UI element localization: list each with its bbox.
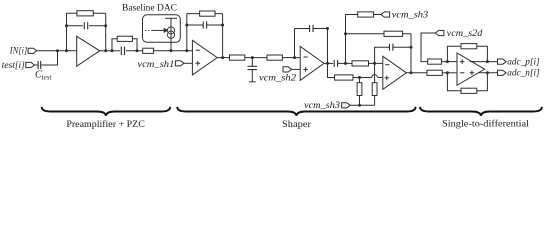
svg-text:Ctest: Ctest [35, 70, 52, 82]
resistor R4 [352, 61, 369, 66]
wire Rvcm2 bottom [374, 96, 376, 106]
wire adc_n output [474, 72, 498, 74]
brace single-to-differential section [420, 108, 542, 116]
wire test pad to C_test [34, 64, 37, 66]
wire shaper2 output [324, 62, 333, 64]
resistor s2d feedback bottom [461, 88, 477, 93]
junction PZC right [136, 49, 139, 52]
wire PZC cap right [126, 50, 143, 52]
arrowhead DAC [164, 29, 167, 33]
resistor Rin_n [427, 70, 442, 75]
junction feedback cap left [65, 24, 68, 27]
resistor PZC Rpz [117, 36, 132, 41]
resistor s2d feedback top [461, 44, 477, 49]
junction feedback cap right [104, 24, 107, 27]
svg-text:adc_p[i]: adc_p[i] [507, 57, 540, 67]
wire vcm_sh1 to shaper1 plus [184, 62, 192, 64]
svg-text:Preamplifier + PZC: Preamplifier + PZC [66, 119, 145, 129]
wire shaper2 feedback left vertical [294, 29, 296, 58]
junction Rvcm1 top [358, 76, 361, 79]
wire s2d bottom feedback right [477, 73, 488, 91]
svg-text:test[i]: test[i] [2, 60, 26, 70]
s2d out plus sign [470, 71, 475, 76]
op3 minus sign [385, 64, 389, 66]
wire R4 to op3 [369, 62, 383, 64]
capacitor op3 feedback [390, 44, 393, 51]
wire Rin_n to s2d [442, 72, 457, 74]
capacitor C3 series [334, 60, 337, 67]
wire shaper1 feedback right vertical [222, 14, 224, 58]
junction test/IN node [56, 49, 59, 52]
wire preamp feedback cap row left [67, 25, 83, 27]
shaper1 minus sign [196, 49, 200, 51]
capacitor shaper2 feedback [310, 25, 313, 32]
baseline DAC box [143, 15, 181, 43]
op-amp shaper1 A2 [192, 40, 217, 75]
wire R6 to hop [353, 77, 372, 79]
wire DAC supply T-bar [165, 17, 177, 19]
wire R3 to shaper2 [282, 57, 300, 59]
pad adc_p [498, 59, 507, 64]
wire shaper2 cap row left [295, 28, 310, 30]
resistor R5 vcm_sh3 [358, 12, 374, 17]
shaper2 minus sign [304, 56, 308, 58]
wire preamp output [100, 50, 112, 52]
capacitor shunt C2 [248, 66, 258, 69]
svg-text:vcm_sh3: vcm_sh3 [392, 9, 429, 19]
wire vcm_sh3 stub vertical [346, 15, 358, 64]
wire IN to preamp [37, 50, 77, 52]
s2d in minus sign [460, 72, 464, 74]
junction op3 feedback tap [373, 62, 376, 65]
wire shaper1 feedback top rail [187, 13, 223, 15]
wire hop over vertical [372, 75, 378, 78]
op-amp shaper2 A3 [300, 46, 324, 80]
junction adc_n node [486, 71, 489, 74]
wire op3 output [406, 72, 427, 74]
resistor op3 feedback [384, 31, 403, 36]
wire C_test to IN node [41, 51, 57, 65]
resistor R6 [335, 75, 354, 80]
capacitor preamp feedback Cf [84, 22, 87, 29]
svg-text:Baseline DAC: Baseline DAC [122, 3, 177, 13]
junction vcm_sh3 stub tap [344, 62, 347, 65]
shaper2 plus sign [303, 67, 308, 72]
wire hop to op3 plus [378, 77, 383, 79]
wire PZC cap left [112, 50, 120, 52]
junction PZC left [111, 49, 114, 52]
pad IN[i] [28, 48, 37, 53]
junction shaper2 feedback corner [326, 27, 329, 30]
wire DAC arrow shaft [152, 29, 164, 31]
current source DAC circles [167, 27, 174, 39]
junction adc_p node [486, 60, 489, 63]
svg-text:vcm_s2d: vcm_s2d [447, 28, 483, 38]
op-amp A4 [383, 56, 407, 89]
op3 plus sign [385, 76, 390, 81]
wire preamp feedback top rail [67, 12, 106, 14]
junction op3 cap right [410, 46, 413, 49]
junction shaper2 output [326, 62, 329, 65]
svg-text:vcm_sh2: vcm_sh2 [259, 73, 297, 83]
shaper1 plus sign [196, 61, 201, 66]
wire preamp feedback left vertical [66, 13, 68, 51]
wire vcm_s2d stub [421, 33, 435, 62]
svg-text:vcm_sh3: vcm_sh3 [304, 100, 341, 110]
wire Rin_p to s2d [442, 61, 457, 63]
junction shunt cap node [251, 56, 254, 59]
wire PZC bridge right vertical [132, 39, 137, 51]
wire R1 to shaper1 [154, 50, 193, 52]
s2d in plus sign [460, 59, 465, 64]
brace shaper section [177, 108, 415, 116]
wire shaper1 cap row left [187, 24, 203, 26]
pad vcm_sh3 top [381, 12, 390, 17]
wire op3 cap row left [375, 47, 390, 63]
pad vcm_sh2 [283, 67, 292, 72]
wire preamp feedback right vertical [105, 13, 107, 51]
junction shaper1 cap left [185, 24, 188, 27]
svg-text:IN[i]: IN[i] [9, 46, 28, 56]
wire op3 feedback right vertical [403, 34, 411, 73]
junction preamp input node [65, 49, 68, 52]
resistor R2 [230, 55, 245, 60]
capacitor PZC Cpz [121, 47, 124, 55]
wire op3 tap vertical [374, 63, 376, 82]
wire shaper2 out to plus path [328, 63, 335, 77]
junction shaper1 feedback tap [185, 49, 188, 52]
wire op3 feedback resistor rail [346, 33, 385, 35]
wire s2d top feedback [447, 46, 461, 61]
pad test[i] [26, 62, 35, 67]
capacitor C_test [38, 61, 41, 69]
s2d out minus sign [470, 61, 474, 63]
junction op3 feedback rail tap [344, 32, 347, 35]
svg-text:Shaper: Shaper [282, 119, 311, 129]
junction shaper1 output [221, 56, 224, 59]
wire DAC dashed control [145, 29, 152, 31]
ground bar shunt cap [249, 81, 256, 83]
resistor preamp feedback Rf [77, 11, 93, 16]
wire s2d bottom feedback [447, 73, 461, 91]
wire vcm_sh2 to shaper2 plus [292, 68, 301, 70]
wire shaper1 cap row right [207, 24, 223, 26]
wire s2d top feedback right [477, 46, 488, 61]
wire PZC bridge left vertical [112, 39, 117, 51]
junction baseline DAC tap [170, 49, 173, 52]
junction shaper2 feedback tap [293, 56, 296, 59]
wire adc_p output [470, 61, 498, 63]
resistor shaper1 feedback [200, 11, 215, 16]
wire DAC vertical [170, 18, 172, 51]
resistor Rvcm2 vertical [372, 83, 377, 96]
brace preamplifier section [42, 108, 170, 116]
pad vcm_sh3 bottom [342, 103, 351, 108]
wire shunt cap bottom [251, 70, 253, 82]
capacitor shaper1 feedback [203, 21, 206, 28]
resistor Rin_p [428, 59, 442, 64]
wire shaper2 feedback right vertical [327, 29, 329, 64]
resistor Rvcm1 vertical [357, 83, 362, 96]
junction op3 output [410, 71, 413, 74]
pad vcm_s2d [435, 30, 444, 35]
wire shunt cap top [251, 58, 253, 67]
wire preamp feedback cap row right [89, 25, 106, 27]
op-amp s2d A5 [457, 53, 485, 85]
op-amp preamp A1 [77, 36, 100, 66]
wire op3 cap row right [393, 46, 411, 48]
junction s2d bottom fb tap [446, 71, 449, 74]
wire vcm_sh3 row [350, 104, 374, 106]
wire shaper2 cap row right [313, 28, 328, 30]
junction s2d top fb tap [446, 60, 449, 63]
pad vcm_sh1 [175, 61, 184, 66]
wire R5 to pad [374, 14, 381, 16]
svg-text:adc_n[i]: adc_n[i] [507, 68, 540, 78]
pad adc_n [498, 70, 507, 75]
junction shaper1 cap right [221, 24, 224, 27]
svg-text:vcm_sh1: vcm_sh1 [137, 59, 174, 69]
svg-text:Single-to-differential: Single-to-differential [442, 119, 530, 129]
junction preamp output feedback tap [104, 49, 107, 52]
wire R2 to R3 [245, 57, 267, 59]
wire Rvcm1 top lead [359, 78, 361, 83]
resistor series R1 [143, 48, 154, 53]
wire Rvcm1 bottom [359, 96, 361, 106]
wire shaper1 feedback left vertical [186, 14, 188, 51]
junction vcm_sh3 row [358, 104, 361, 107]
wire shaper1 output [217, 57, 229, 59]
wire C3 to R4 [338, 62, 352, 64]
resistor R3 [267, 55, 282, 60]
